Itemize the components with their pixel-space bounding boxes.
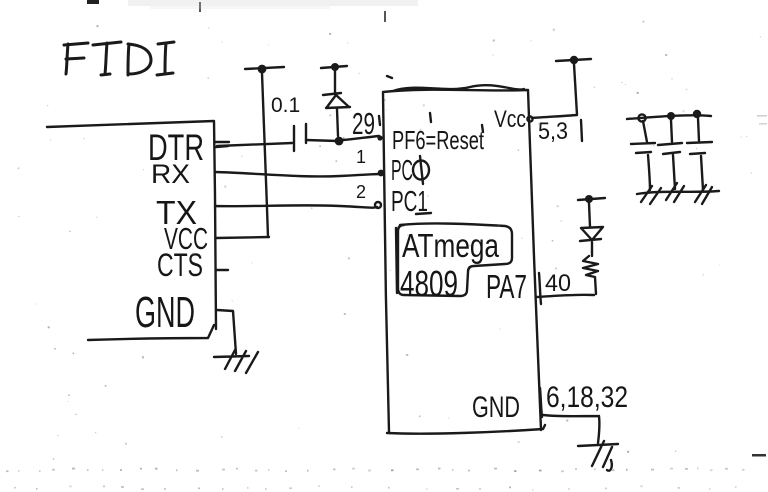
svg-text:CTS: CTS <box>157 247 203 283</box>
decoupling rail <box>627 115 711 119</box>
wire TX to PC1 <box>215 205 377 207</box>
junction node reset net <box>335 137 344 146</box>
node C4 <box>693 110 701 118</box>
svg-text:5,3: 5,3 <box>538 118 568 145</box>
diode D1 reset-to-VCC <box>323 71 350 136</box>
svg-text:Vcc: Vcc <box>494 106 526 133</box>
svg-text:29: 29 <box>352 106 375 141</box>
pin PC1 circle <box>375 202 381 208</box>
pin Vcc tick <box>527 116 532 121</box>
capacitor C3 <box>658 120 682 189</box>
IC label box ATmega4809 <box>396 223 512 296</box>
wire GND to ground <box>543 415 599 443</box>
svg-text:0.1: 0.1 <box>271 94 300 117</box>
wire FTDI GND <box>217 310 236 354</box>
junction PC0 pin <box>378 170 385 177</box>
VCC tap node (top-left rail) <box>258 65 267 74</box>
svg-text:PC: PC <box>391 155 413 187</box>
svg-text:6,18,32: 6,18,32 <box>546 381 628 414</box>
pin 40 bracket <box>539 273 541 304</box>
pin DTR tick <box>215 142 229 147</box>
ground bar caps <box>637 191 719 194</box>
IC U1 ATmega4809 box <box>383 85 545 433</box>
phi glyph of PC0 <box>413 161 429 180</box>
pin GND bracket <box>540 388 542 417</box>
svg-text:4809: 4809 <box>400 263 458 304</box>
VCC tap node (diode) <box>331 63 339 71</box>
pin CTS tick <box>216 269 228 271</box>
capacitor C1 plates <box>294 124 306 151</box>
svg-text:ATmega: ATmega <box>402 227 500 264</box>
ground symbol ATmega <box>578 441 618 471</box>
FTDI box <box>47 121 216 340</box>
LED D2 <box>580 203 603 256</box>
VCC tap node (LED) <box>585 195 593 203</box>
svg-text:GND: GND <box>135 288 195 337</box>
ground slashes C2 <box>641 186 661 204</box>
svg-text:1: 1 <box>356 147 366 167</box>
wire node to PF6 pin <box>343 136 379 140</box>
svg-text:GND: GND <box>472 391 520 424</box>
wire resistor to PA7 <box>536 295 594 297</box>
wire FTDI VCC pin <box>216 237 269 238</box>
wire DTR to capacitor <box>217 143 292 146</box>
node C3 <box>667 112 675 120</box>
resistor R1 <box>583 256 598 294</box>
node C2 <box>638 114 645 121</box>
wire Vcc to rail <box>532 64 577 118</box>
capacitor C2 <box>631 121 655 190</box>
wire VCC rail down to FTDI VCC <box>262 73 268 237</box>
wire capacitor to reset node <box>306 140 338 141</box>
svg-text:2: 2 <box>356 182 366 202</box>
svg-text:PA7: PA7 <box>486 268 527 305</box>
wire RX to PC0 <box>215 172 381 176</box>
capacitor C4 <box>687 118 712 190</box>
svg-text:RX: RX <box>151 159 190 189</box>
pin 29 bump <box>377 135 382 140</box>
ground slashes C4 <box>695 185 712 204</box>
VCC tap node (ATmega) <box>570 56 578 64</box>
svg-text:40: 40 <box>545 270 571 297</box>
svg-text:PF6=Reset: PF6=Reset <box>392 125 485 155</box>
ground slashes C3 <box>666 183 684 202</box>
apostrophe marks <box>379 76 483 132</box>
FTDI module label <box>64 42 174 75</box>
ground symbol FTDI <box>214 350 258 373</box>
